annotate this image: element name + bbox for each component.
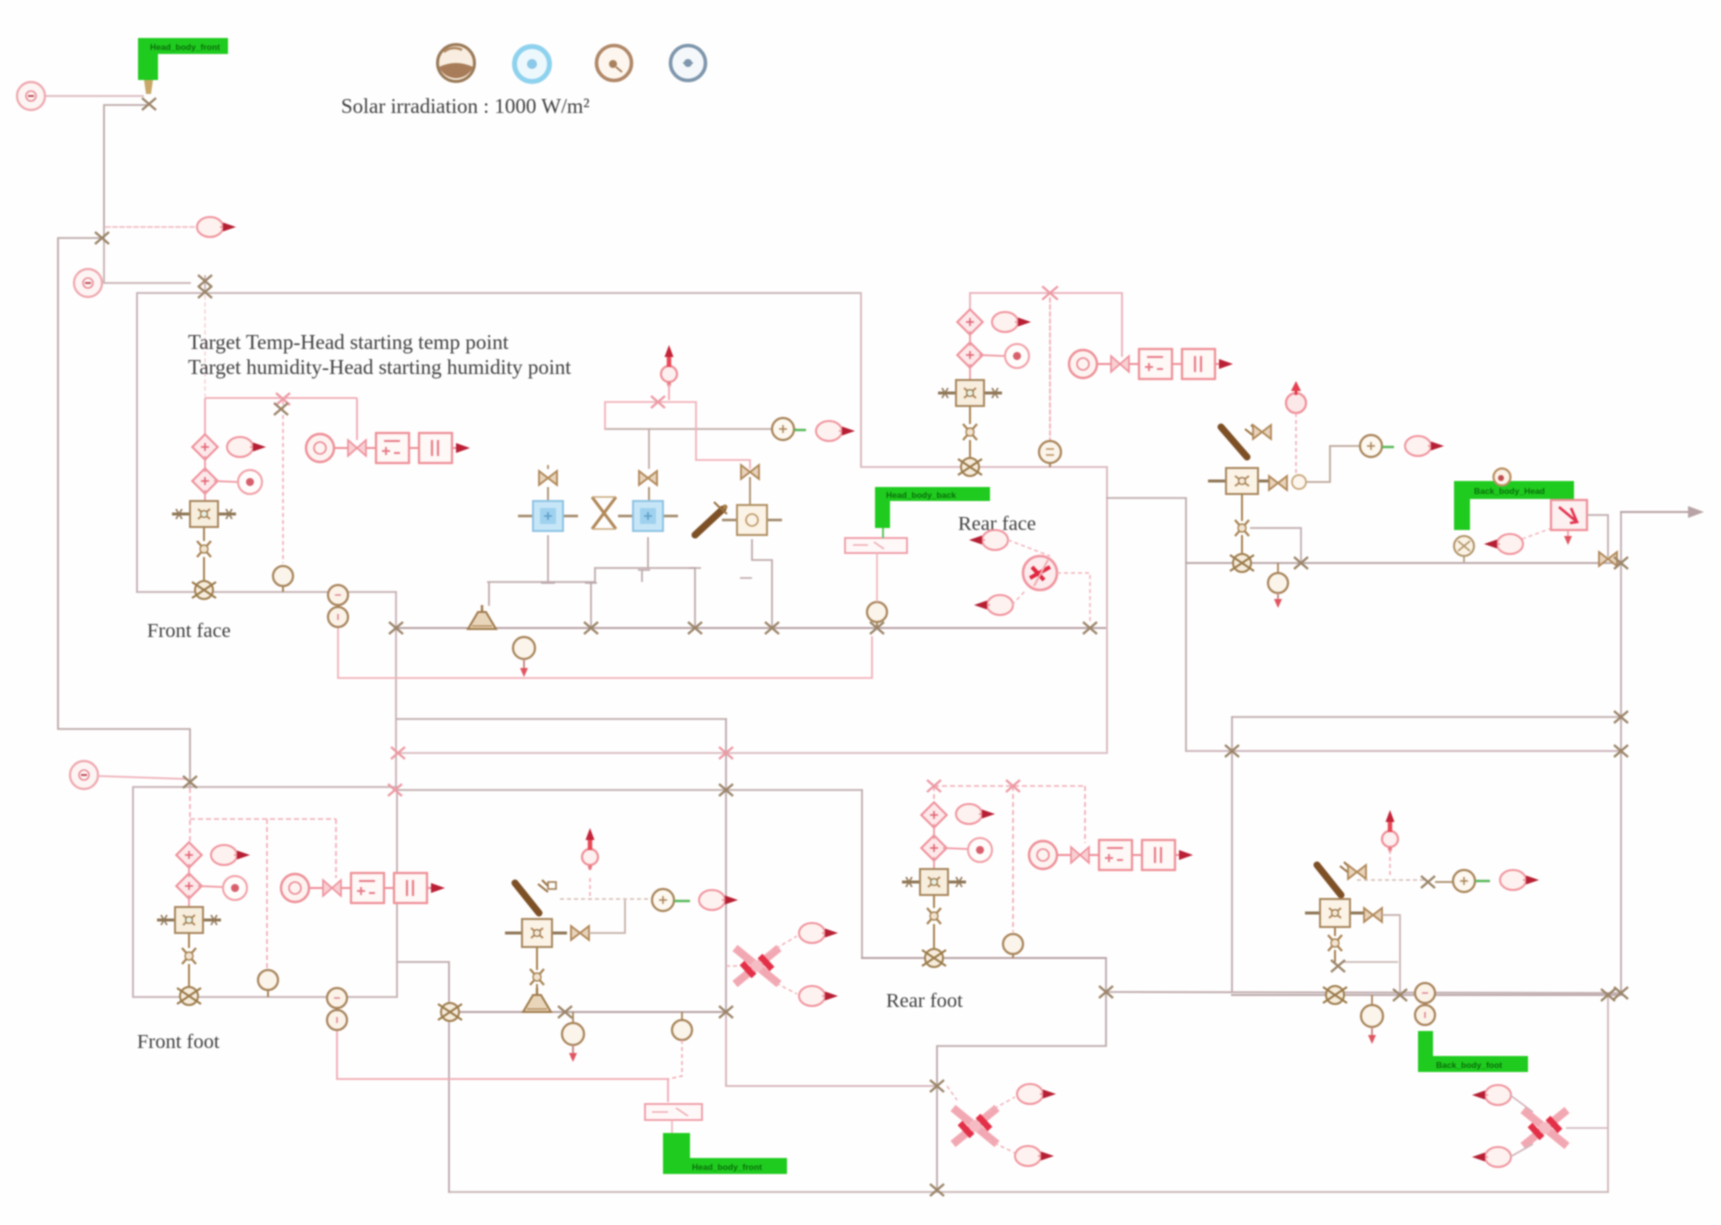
flow circle right	[1360, 435, 1394, 457]
junction circle on y563	[1230, 554, 1254, 572]
humidity sensor circle	[273, 566, 293, 592]
diamond set 1	[921, 802, 946, 827]
junction circle on rear foot rail	[922, 949, 946, 967]
junction x	[1294, 557, 1308, 569]
stem diamonds	[204, 456, 206, 500]
dashed feed	[589, 878, 591, 900]
wire: rear foot branch to right rail	[1106, 992, 1621, 993]
funnel fan on rail	[468, 605, 496, 629]
junction x394 y790	[388, 784, 402, 796]
stem	[969, 406, 971, 424]
junction x102 y238	[95, 232, 109, 244]
oval out arrow	[992, 312, 1031, 332]
mixer X element	[592, 497, 616, 529]
junction x449,1012	[438, 1003, 462, 1021]
heat mass box rear foot	[902, 869, 966, 895]
junction rail start x395	[389, 622, 403, 634]
svg-text:Rear foot: Rear foot	[886, 990, 963, 1012]
small circle above flag3	[1494, 469, 1511, 486]
svg-text:Back_body_Head: Back_body_Head	[1474, 486, 1545, 496]
thick diagonal	[1317, 862, 1350, 895]
diamond set 2	[176, 873, 201, 898]
thick diagonal	[515, 880, 556, 913]
wire: pink return loop front face	[338, 628, 872, 678]
humidity circle under rail	[668, 1012, 692, 1079]
svg-text:Head_body_front: Head_body_front	[692, 1162, 762, 1172]
junction x on y563	[1614, 557, 1628, 569]
oval out with arrow	[227, 437, 266, 457]
dashed row to junction	[1357, 879, 1424, 881]
wire: y719 link	[397, 718, 726, 720]
oval out arrow	[956, 804, 995, 824]
svg-text:Back_body_foot: Back_body_foot	[1436, 1060, 1502, 1070]
wire: output arrow top right	[1621, 511, 1695, 513]
ambient source circle A	[17, 82, 45, 110]
stem	[188, 964, 190, 989]
wire: junction down-left long drop	[104, 105, 147, 238]
mass box bottom right	[1305, 899, 1365, 927]
bowtie above box2	[639, 471, 657, 485]
dashed row y899	[560, 898, 648, 900]
heat mass box front foot	[157, 907, 221, 933]
svg-text:Head_body_front: Head_body_front	[150, 42, 220, 52]
wire: left drop x449	[397, 962, 449, 1192]
wide gauge rect under flag	[845, 528, 907, 602]
oval down-right	[799, 986, 838, 1006]
pink elbow to gauge	[337, 1031, 668, 1102]
probe circle under rail	[513, 637, 535, 677]
wire: mid rail y628	[395, 627, 1105, 629]
tan box 3	[722, 505, 782, 535]
humidity circle below y563	[1268, 563, 1288, 608]
humidity circle x1050	[1039, 441, 1061, 467]
junction circle on rail y995	[1323, 986, 1347, 1004]
bowtie right of box	[571, 926, 589, 940]
junction tick	[1421, 876, 1435, 888]
legend circle slate	[671, 46, 706, 81]
big compressor circle	[1023, 556, 1057, 590]
green flag label 3	[1454, 481, 1574, 539]
flow circle	[1453, 870, 1490, 892]
wire: right bottom cluster rail y995	[1232, 994, 1621, 996]
bowtie top	[1348, 865, 1366, 879]
diamond set 2	[957, 342, 982, 367]
pink wires front foot	[190, 788, 336, 968]
wire: right vertical x1621	[1620, 512, 1622, 993]
wire: x1232 drop	[1231, 717, 1233, 992]
svg-text:Front foot: Front foot	[137, 1031, 220, 1053]
stem box down valve	[1334, 927, 1336, 936]
red mix diamond cluster	[735, 948, 779, 984]
dashed feed	[1295, 413, 1297, 474]
wire: circle C to junction	[98, 776, 186, 779]
bowtie above box1	[539, 471, 557, 485]
junction x937,1190	[930, 1184, 944, 1196]
elbow bowtie to rail	[1382, 915, 1400, 992]
wire: y751 rail	[1186, 750, 1621, 752]
diamond set 1	[176, 842, 201, 867]
pink loop top wire	[205, 398, 357, 440]
valve front foot	[182, 948, 196, 964]
wire: stem x649	[648, 429, 650, 468]
svg-text:Target humidity-Head starting: Target humidity-Head starting humidity p…	[188, 355, 571, 379]
flow circle on rail y429	[772, 418, 806, 440]
red mix diamond cluster right	[1523, 1110, 1567, 1146]
wire: node to front box top	[204, 276, 206, 293]
wire: bowtie to blue box stems	[548, 466, 750, 505]
wire: pink continuation x726	[726, 1013, 937, 1086]
dashed links	[1008, 540, 1090, 624]
gauge rect bottom	[645, 1104, 702, 1133]
junction x1608,995	[1601, 989, 1615, 1001]
wire: step down rail	[395, 592, 397, 790]
bowtie right of box	[1269, 476, 1287, 490]
wire: sub rail y582	[488, 582, 595, 605]
wire: front foot box	[133, 787, 397, 997]
wire: y790 link	[394, 789, 862, 791]
junction x726 on rail	[719, 1006, 733, 1018]
junction x396 y753	[391, 747, 405, 759]
junction under flag 1	[142, 98, 156, 110]
probe circle	[1005, 344, 1029, 368]
legend circle blue	[515, 47, 550, 82]
junction on pink loop	[651, 396, 665, 408]
oval out arrow	[1500, 870, 1539, 890]
oval out mid with arrow	[816, 421, 855, 441]
stem	[933, 895, 935, 908]
green flag label 4	[663, 1133, 787, 1174]
junction x y717	[1614, 711, 1628, 723]
oval up-right rear foot	[1017, 1084, 1056, 1104]
dashed feed	[1389, 850, 1391, 878]
small circle after bowtie	[1292, 475, 1306, 489]
wire: dashed pink to oval	[106, 226, 196, 228]
legend circle tan	[597, 46, 632, 81]
dashed humidity feed x283	[282, 401, 284, 563]
oval down-right rear foot	[1015, 1146, 1054, 1166]
elbow to right	[1343, 961, 1398, 963]
wire: pink loop over source	[605, 402, 750, 468]
wire: cluster stems to rails	[548, 536, 772, 628]
svg-text:Front face: Front face	[147, 620, 231, 642]
bowtie top right	[1253, 425, 1271, 439]
diamond temp set 1	[192, 434, 217, 459]
probe circle	[223, 876, 247, 900]
junction x1400	[1393, 989, 1407, 1001]
stems	[188, 864, 190, 908]
red source right	[1286, 381, 1306, 413]
green flag label 2	[875, 487, 990, 528]
humidity sensor circle	[258, 970, 278, 997]
oval out arrow	[699, 890, 738, 910]
wire: front face box	[137, 293, 860, 592]
elbow to flow circle	[1306, 446, 1359, 482]
junction circle on box bottom	[177, 987, 201, 1005]
stem	[933, 924, 935, 951]
junction node at 205,283	[198, 275, 212, 287]
wire: x1608 drop	[1607, 995, 1609, 1192]
wire: front face bottom rail	[137, 591, 396, 593]
links	[1510, 1095, 1608, 1157]
oval gauge with red arrow (top)	[197, 217, 236, 237]
junction circle on rear top rail	[958, 458, 982, 476]
blue humid box 2	[618, 501, 678, 531]
mass box head	[505, 919, 567, 947]
junction on box top edge	[198, 286, 212, 298]
wire: rear face top loop	[970, 293, 1122, 356]
blue humid box 1	[518, 501, 578, 531]
dashed links	[726, 936, 797, 994]
bowtie right of box	[1364, 908, 1382, 922]
junction circle under flag3	[1454, 536, 1474, 562]
humidity circle	[1003, 934, 1023, 958]
wire: supply circle A to flag junction	[46, 95, 143, 97]
junction x1232 y751	[1225, 745, 1239, 757]
wire diamond to probe	[214, 481, 237, 482]
oval left arrow up	[1472, 1085, 1511, 1105]
svg-text:Solar irradiation : 1000 W/m²: Solar irradiation : 1000 W/m²	[341, 94, 590, 118]
mass box right cluster	[1208, 468, 1272, 494]
valve rear face	[963, 424, 977, 440]
valve rear foot	[927, 908, 941, 924]
eight on rail	[1415, 983, 1435, 1025]
probe circle under rail	[1361, 995, 1383, 1044]
thick diagonal sensor	[695, 502, 728, 535]
valve front face	[197, 541, 211, 557]
wire: bottom long rail	[449, 1191, 1608, 1193]
wire: sub rail y568	[595, 568, 695, 582]
oval left arrow down	[1472, 1147, 1511, 1167]
junction x y751	[1614, 745, 1628, 757]
oval humidity with left arrow	[969, 530, 1008, 550]
stem	[203, 557, 205, 583]
stem box down valve	[536, 947, 538, 970]
transfer chain front foot	[281, 873, 445, 903]
diamond set 2	[921, 835, 946, 860]
junction on rear top loop	[1043, 287, 1057, 299]
junction x1621 y993	[1614, 987, 1628, 999]
transfer chain front face	[306, 433, 470, 463]
wire: rear foot loop right	[937, 958, 1106, 1190]
stems	[933, 824, 935, 870]
junction 1106,989	[1099, 986, 1113, 998]
stems	[969, 331, 971, 380]
rear-face junction circle x877	[867, 602, 887, 628]
probe circle	[968, 838, 992, 862]
thick diagonal right	[1221, 425, 1257, 457]
small x on dashed	[274, 403, 288, 415]
sensor circle C front foot	[70, 761, 98, 789]
svg-text:Target Temp-Head starting temp: Target Temp-Head starting temp point	[188, 330, 509, 354]
probe circle	[238, 470, 262, 494]
green flag label 5	[1418, 1031, 1528, 1072]
stem box down + valve	[1241, 494, 1243, 521]
sensor circle B	[74, 269, 102, 297]
wire to flow circle	[1435, 881, 1452, 883]
junction on loop	[276, 393, 290, 405]
red source	[582, 828, 598, 870]
oval temp with left arrow	[974, 595, 1013, 615]
transfer chain rear foot	[1029, 840, 1193, 870]
green flag label 1	[138, 38, 228, 94]
diamond set 1	[957, 309, 982, 334]
bracket ticks sub rails	[541, 568, 752, 583]
junction at 190,782	[183, 776, 197, 788]
junction x	[558, 1006, 572, 1018]
wire to probe	[198, 886, 222, 887]
elbow valve to y563	[1250, 528, 1301, 561]
red source	[1382, 810, 1398, 852]
red mix diamond cluster rear foot	[953, 1108, 997, 1144]
heat mass box rear face	[938, 380, 1002, 406]
bowtie at rail junction	[1599, 552, 1617, 566]
wire: y717 rail	[1232, 716, 1621, 718]
wire: front box right edge into rear box top	[861, 293, 1107, 751]
wire: long center drop x726	[725, 719, 727, 1013]
wire to probe	[943, 848, 967, 849]
wire: right cluster link y563	[1186, 562, 1621, 564]
pink wires rear foot	[934, 786, 1085, 932]
red temp source mid	[661, 345, 677, 387]
fan on rail	[523, 988, 551, 1012]
legend sphere thermal	[438, 45, 475, 82]
oval up-right	[799, 923, 838, 943]
junction x726 y790	[719, 784, 733, 796]
elbow box to rail	[1587, 515, 1608, 557]
wire: rear face right branch	[1107, 498, 1186, 751]
wire: left long rail down and over	[58, 238, 190, 788]
heat mass box front face	[172, 501, 236, 527]
diamond set 2	[192, 468, 217, 493]
junction circle on rail	[192, 581, 216, 599]
bowtie above box 3	[741, 465, 759, 479]
wire to probe	[979, 355, 1004, 356]
stem	[203, 527, 205, 541]
red process box	[1551, 500, 1587, 545]
wire: mid top rail y429	[605, 428, 795, 430]
wire: rear foot rail	[862, 957, 1106, 959]
eight stack on front rail	[328, 585, 348, 627]
svg-text:Head_body_back: Head_body_back	[886, 490, 956, 500]
wire: drop x862 to rear foot rail	[861, 790, 863, 958]
oval out right arrow	[1405, 436, 1444, 456]
wire: front foot rail y1012	[449, 1011, 726, 1013]
elbow bowtie up	[589, 900, 625, 933]
transfer chain rear face	[1069, 349, 1233, 379]
flow circle	[652, 889, 690, 911]
wire: faint feed down to front-face cluster	[204, 296, 206, 396]
probe circle under rail	[562, 1012, 584, 1062]
wire: rear box bottom long pink	[397, 752, 1107, 754]
dashed links rear foot mixer	[947, 1086, 1015, 1153]
stem	[969, 440, 971, 460]
wire: link down to sensor B row	[104, 238, 190, 283]
stem	[188, 933, 190, 948]
oval with left arrow near flag3	[1484, 534, 1523, 554]
rail junctions	[584, 622, 598, 634]
eight on front foot bottom	[327, 988, 347, 1030]
junction x937,1086	[930, 1080, 944, 1092]
junction block	[1331, 960, 1345, 972]
junction x726 y753	[719, 747, 733, 759]
oval out arrow	[211, 845, 250, 865]
wire: dashed feed x1050	[1049, 298, 1051, 440]
